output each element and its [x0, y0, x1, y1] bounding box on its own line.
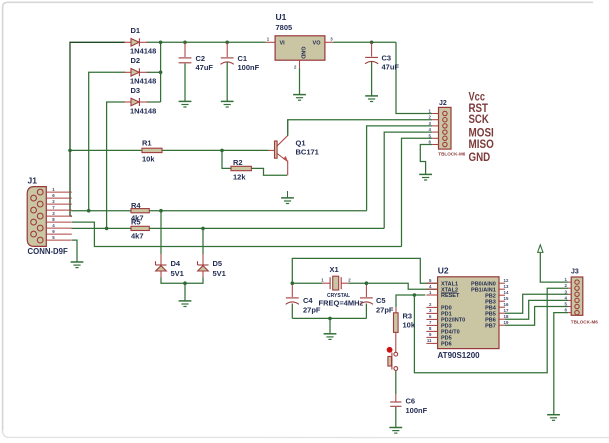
svg-text:PD6: PD6 — [441, 342, 452, 348]
diode D1 1N4148 — [124, 26, 156, 56]
wire: D1 cathode rail to U1 VI — [147, 41, 266, 43]
svg-text:D1: D1 — [131, 26, 141, 35]
wire: D3 anode from J1 pin4 net — [107, 102, 125, 228]
zener D4 5V1 — [156, 259, 184, 278]
resistor R5 4k7 — [131, 218, 149, 241]
wire: R5 row from J1 pin4 — [72, 227, 131, 229]
capacitor C4 27pF — [286, 296, 321, 315]
transistor Q1 BC171 — [269, 120, 319, 162]
wire: D2 cathode to vertical — [147, 71, 161, 73]
capacitor C1 100nF — [221, 42, 260, 101]
diode D2 1N4148 — [124, 56, 156, 86]
wire: RESET row R3 to U2 — [396, 295, 425, 307]
resistor R4 4k7 — [131, 201, 149, 223]
svg-text:12k: 12k — [233, 173, 246, 182]
svg-text:5V1: 5V1 — [213, 269, 226, 278]
svg-text:4k7: 4k7 — [131, 232, 144, 241]
wire: D3 cathode to vertical — [147, 101, 161, 103]
wire: J3 pin1 to Vcc arrow — [540, 253, 568, 283]
power arrow Vcc J3 — [538, 245, 543, 253]
ground D4 D5 — [179, 301, 192, 307]
ground U1 — [293, 95, 306, 101]
wire: D4 branch vertical — [160, 211, 162, 265]
resistor R3 10k — [394, 312, 416, 333]
crystal X1 — [319, 265, 364, 308]
wire: U1 VO rail to Vcc corner — [333, 41, 396, 43]
ground C2 — [179, 101, 192, 107]
wire: crystal top rail to U2 XTAL1 — [292, 258, 437, 283]
wire: R5 to MOSI vertical — [149, 227, 384, 229]
push button — [387, 347, 398, 371]
svg-text:R2: R2 — [233, 158, 243, 167]
wire: R4 row from J1 pin7 — [72, 209, 131, 212]
svg-text:13: 13 — [504, 284, 509, 289]
svg-text:VO: VO — [313, 40, 322, 46]
svg-text:SCK: SCK — [469, 114, 490, 126]
svg-text:C4: C4 — [303, 296, 313, 305]
connector J1 CONN-D9F — [27, 176, 72, 257]
svg-text:R5: R5 — [131, 218, 141, 227]
capacitor C5 27pF — [360, 296, 394, 315]
svg-text:RESET: RESET — [441, 293, 460, 299]
ground J3 pin6 — [547, 415, 560, 421]
wire: X1 pin1 row — [292, 282, 322, 284]
svg-text:17: 17 — [504, 308, 509, 313]
svg-text:18: 18 — [504, 314, 509, 319]
svg-text:VI: VI — [280, 40, 286, 46]
wire: J3 pin6 to ground — [554, 313, 568, 415]
svg-text:100nF: 100nF — [238, 63, 260, 72]
svg-text:MOSI: MOSI — [469, 128, 494, 140]
ground Q1 emitter — [281, 191, 294, 204]
wire: R1 row from dark vertical — [70, 149, 142, 151]
svg-text:19: 19 — [504, 320, 509, 325]
wire: emitter vertical — [287, 161, 289, 176]
svg-text:27pF: 27pF — [376, 306, 394, 315]
svg-text:PB7: PB7 — [485, 323, 496, 329]
wire: crystal bottom rail to ground — [292, 318, 366, 333]
svg-text:J2: J2 — [439, 100, 447, 107]
wire: MISO row J1 pin8 jog to J2 pin5 vertical — [72, 222, 402, 246]
wire: D2 anode from J1 pin7 net — [89, 72, 125, 210]
svg-text:15: 15 — [504, 296, 509, 301]
svg-text:11: 11 — [427, 338, 432, 343]
wire: D4 D5 cathode join to ground — [161, 271, 203, 301]
wire: D5 branch vertical — [202, 228, 204, 264]
svg-text:TBLOCK-M6: TBLOCK-M6 — [438, 152, 465, 157]
ISP labels — [469, 91, 494, 164]
svg-text:U1: U1 — [276, 12, 287, 22]
svg-text:1N4148: 1N4148 — [130, 47, 156, 56]
wire: R1 to Q1 base — [162, 149, 269, 151]
wire: MISO rail J2 pin5 down to pin8 row — [402, 138, 433, 246]
svg-text:AT90S1200: AT90S1200 — [438, 351, 481, 360]
wire: R4 to SCK vertical — [149, 210, 366, 212]
wire: SCK rail J2 pin3 down to R4 row — [367, 126, 433, 211]
diode D3 1N4148 — [124, 86, 156, 116]
svg-text:D5: D5 — [213, 259, 223, 268]
svg-text:TBLOCK-M6: TBLOCK-M6 — [571, 320, 598, 325]
svg-text:R4: R4 — [131, 201, 141, 210]
wire: diode output vertical D3-D2-D1 — [160, 42, 162, 102]
svg-text:BC171: BC171 — [296, 147, 319, 156]
svg-text:27pF: 27pF — [303, 306, 321, 315]
MCU U2 AT90S1200 — [426, 266, 509, 361]
wire: C6 to ground — [395, 407, 397, 428]
capacitor C2 47uF — [179, 42, 214, 101]
svg-text:GND: GND — [469, 152, 491, 164]
svg-text:C5: C5 — [376, 296, 386, 305]
regulator U1 7805 — [266, 12, 334, 95]
ground J2 — [419, 174, 432, 180]
svg-text:1N4148: 1N4148 — [130, 107, 156, 116]
svg-text:14: 14 — [504, 290, 509, 295]
ground C1 — [221, 101, 234, 107]
svg-text:100nF: 100nF — [406, 406, 428, 415]
svg-text:J3: J3 — [571, 269, 579, 276]
svg-text:12: 12 — [504, 278, 509, 283]
ground C6 — [389, 428, 402, 434]
svg-text:J1: J1 — [28, 176, 38, 186]
svg-text:7805: 7805 — [276, 23, 293, 32]
terminal block J2 TBLOCK-M6 — [429, 100, 466, 157]
resistor R2 12k — [231, 158, 251, 182]
wire: base junction down to R2 left — [222, 150, 231, 168]
svg-text:RST: RST — [469, 103, 489, 115]
wire: R3 bottom to button — [395, 332, 397, 352]
svg-text:U2: U2 — [438, 266, 449, 276]
wire: MOSI rail J2 pin4 down to R5 row — [384, 132, 432, 228]
zener D5 5V1 — [198, 259, 226, 278]
svg-text:FREQ=4MHz: FREQ=4MHz — [319, 299, 364, 308]
resistor R1 10k — [142, 139, 162, 164]
wire: U2 PB5 to J3 pin3 — [505, 294, 568, 313]
svg-text:C3: C3 — [382, 54, 392, 63]
svg-text:R3: R3 — [403, 312, 413, 321]
svg-text:X1: X1 — [330, 265, 339, 274]
svg-text:GND: GND — [300, 47, 306, 59]
svg-text:D2: D2 — [131, 56, 141, 65]
wire: button to C6 — [395, 371, 397, 402]
svg-text:R1: R1 — [142, 139, 152, 148]
wire: J2 pin6 to ground jog — [420, 145, 432, 175]
svg-text:1N4148: 1N4148 — [130, 77, 156, 86]
svg-text:CONN-D9F: CONN-D9F — [28, 247, 69, 256]
svg-text:47uF: 47uF — [196, 63, 214, 72]
wire: U2 PB6 to J3 pin4 — [505, 300, 568, 319]
svg-text:C1: C1 — [238, 54, 248, 63]
svg-text:D3: D3 — [131, 86, 141, 95]
wire: RESET branch down to J3 pin2 — [414, 288, 568, 373]
ground C3 — [365, 96, 378, 102]
wire: R2 right to emitter jog — [251, 168, 287, 175]
ground crystal — [324, 334, 337, 340]
wire: C5 stem — [365, 283, 367, 318]
svg-text:Vcc: Vcc — [469, 91, 486, 103]
wire: U2 PB7 to J3 pin5 — [505, 307, 568, 326]
ground J1 pin5 — [71, 262, 84, 268]
svg-text:D4: D4 — [171, 259, 181, 268]
wire: J1 pin5 to ground — [72, 240, 77, 262]
wire: Vcc vertical to J2 pin1 — [396, 42, 432, 113]
svg-text:10k: 10k — [403, 321, 416, 330]
wire: J1 pin3 to D1 anode (dark net) — [70, 42, 125, 216]
capacitor C6 100nF — [390, 397, 427, 416]
wire: RST rail Q1 collector to J2 pin2 — [288, 120, 433, 135]
svg-text:47uF: 47uF — [382, 63, 400, 72]
capacitor C3 47uF — [365, 42, 399, 96]
svg-text:16: 16 — [504, 302, 509, 307]
svg-text:C6: C6 — [406, 397, 416, 406]
svg-text:Q1: Q1 — [296, 138, 306, 147]
svg-text:5V1: 5V1 — [171, 269, 184, 278]
svg-text:C2: C2 — [196, 54, 206, 63]
wire: X1 pin2 row to U2 XTAL2 — [349, 283, 438, 289]
terminal block J3 TBLOCK-M6 — [565, 269, 599, 325]
svg-text:10k: 10k — [142, 155, 155, 164]
wire: C4 stem — [291, 283, 293, 318]
svg-text:MISO: MISO — [469, 139, 494, 151]
